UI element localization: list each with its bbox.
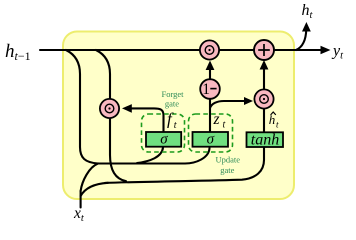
label: Forget gate [161,89,184,109]
svg-text:σ: σ [160,132,168,148]
label: Update gate [216,155,241,176]
svg-text:t: t [174,120,177,131]
sigma box 1 (forget gate sigma) [146,132,181,147]
wire: 1- up to top circle-dot (arrow up) [209,65,211,79]
svg-text:σ: σ [207,132,215,148]
dashed box: Update gate [189,114,233,152]
wire: lower circle-dot up to plus (arrow up) [263,65,265,90]
svg-text:gate: gate [220,165,234,175]
wire: bus1 horizontal feeding sigma boxes [98,148,210,164]
wire: sigma2 output up to 1- circle [209,96,211,131]
top circle-dot operator [200,40,219,59]
wire: sigma1 output to left circle-dot (arrow left) [129,108,164,131]
wire: branch from h line down at x=80 into bus1 [66,50,98,164]
arrowhead h(t) up [302,22,311,32]
plus operator [254,40,274,60]
lower circle-dot operator [254,89,273,108]
svg-text:tanh: tanh [251,131,279,148]
svg-text:Update: Update [216,155,241,165]
wire: x(t) input vertical [80,191,82,208]
svg-text:gate: gate [165,99,179,109]
svg-text:xt: xt [73,205,85,224]
arrowhead into lower circle-dot [244,97,253,105]
svg-text:ht: ht [302,2,314,21]
wire: x(t) branch to bus1 [81,164,98,192]
1 minus circle [200,79,220,99]
wire: h(t) branch curving up from output line [296,29,306,50]
sigma box 2 (update gate sigma) [193,132,229,147]
tanh box [247,132,284,147]
arrowhead into left circle-dot [122,104,132,113]
svg-text:ht−1: ht−1 [5,41,31,63]
svg-text:h: h [269,112,276,127]
arrowhead lower circle-dot to plus [260,60,269,70]
wire: h(t-1) main horizontal line to y(t) [40,49,322,51]
svg-text:yt: yt [331,43,344,62]
cell body (yellow rounded rectangle) [63,32,294,200]
wire: bus2 horizontal feeding tanh [105,148,264,183]
wire: x(t) branch to bus2 [81,183,108,196]
wire: z branch right to lower circle-dot (arrow right) [210,101,246,108]
svg-text:Forget: Forget [161,89,184,99]
wire: branch from bus1 up into first sigma [137,148,163,164]
svg-text:z: z [213,111,220,128]
svg-text:t: t [223,120,226,131]
left circle-dot operator [100,99,119,118]
svg-text:1: 1 [202,81,210,98]
wire: tanh output up to lower circle-dot [263,107,265,132]
dashed box: Forget gate [142,114,185,152]
arrowhead y(t) right [321,46,331,55]
wire: branch from h line down at x=110 through left circle-dot [96,50,126,181]
arrowhead 1- to top circle-dot [206,61,215,71]
